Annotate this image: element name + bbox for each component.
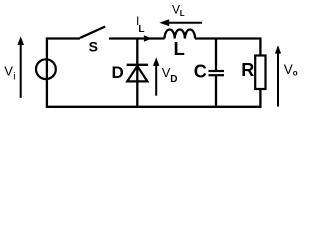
wire: through source circle xyxy=(46,58,48,81)
svg-text:D: D xyxy=(112,63,124,82)
svg-text:D: D xyxy=(170,74,177,85)
svg-text:i: i xyxy=(13,71,15,82)
svg-text:L: L xyxy=(138,24,144,35)
resistor R (rectangle) xyxy=(255,56,265,90)
svg-text:o: o xyxy=(293,69,298,78)
inductor L xyxy=(165,30,196,39)
diode D triangle xyxy=(127,66,147,81)
wire: top-right corner down to resistor xyxy=(195,39,260,56)
wire: capacitor branch lower xyxy=(215,76,217,107)
wire: switch right contact to inductor xyxy=(109,37,165,39)
svg-text:C: C xyxy=(194,62,207,82)
wire: outer loop (left rail, bottom rail, right rail segments, top-right wire) xyxy=(47,39,261,107)
voltage source V_i (circle) xyxy=(36,59,56,79)
svg-text:L: L xyxy=(180,9,185,18)
svg-text:V: V xyxy=(284,62,293,77)
capacitor C plates xyxy=(209,70,225,72)
diode D cathode bar xyxy=(127,64,149,66)
V_D arrow (pointing up) xyxy=(155,65,157,96)
V_o arrow (pointing up) xyxy=(277,53,279,107)
V_i arrow (pointing up) xyxy=(20,45,22,98)
svg-text:R: R xyxy=(241,60,254,80)
wire: diode branch xyxy=(136,39,138,107)
arrowhead I_L current direction xyxy=(144,35,152,41)
wire: capacitor branch upper xyxy=(215,39,217,71)
switch S blade xyxy=(80,27,105,38)
V_L arrow (pointing left) xyxy=(168,22,202,24)
svg-text:S: S xyxy=(89,38,98,54)
svg-text:L: L xyxy=(174,38,185,59)
svg-text:V: V xyxy=(4,64,13,79)
